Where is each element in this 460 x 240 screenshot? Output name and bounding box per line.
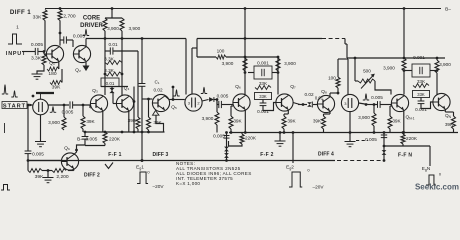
svg-text:DIFF 3: DIFF 3 [153, 152, 169, 158]
transistor Q2 [73, 45, 90, 62]
wire bus drop to DIFF4 [344, 39, 346, 45]
svg-text:0.005: 0.005 [32, 152, 44, 157]
node 39K tap [82, 104, 85, 107]
label START box [2, 102, 27, 109]
svg-text:39K: 39K [445, 122, 454, 127]
label Q4 wire stub [133, 87, 135, 133]
capacitor 0.005 start coupling [69, 101, 71, 108]
wire Q7 to Q8 [293, 103, 300, 105]
wire Eg2 stub [292, 133, 294, 164]
wire transformer feed top [338, 58, 348, 60]
wire Q3 emitter [102, 111, 104, 133]
wire Eg1 stub [141, 159, 144, 162]
svg-text:2,200: 2,200 [56, 174, 69, 180]
resistor 220K FFN [402, 133, 404, 135]
wire Q8 base [313, 104, 318, 106]
resistor 33K collector Q1 [43, 10, 47, 21]
wire Q8 collector riser [329, 93, 331, 97]
svg-text:Q₅: Q₅ [171, 105, 177, 111]
wire bus y38.5 segment B [197, 38, 322, 40]
svg-text:220K: 220K [109, 137, 121, 142]
wire rail drop FF2 [244, 9, 246, 95]
wire QN base link [421, 102, 433, 109]
wire pot output [375, 81, 391, 95]
waveform EgN step [426, 175, 436, 185]
svg-text:0.001: 0.001 [413, 55, 425, 60]
svg-text:0.02: 0.02 [153, 88, 163, 93]
svg-text:0.005: 0.005 [73, 34, 86, 40]
svg-text:0.02: 0.02 [304, 92, 314, 97]
svg-text:3,900: 3,900 [107, 26, 119, 31]
svg-text:0.005: 0.005 [371, 95, 383, 100]
node 3,900 tap [216, 98, 219, 101]
svg-text:39K: 39K [287, 119, 296, 124]
wire top supply rail B- [45, 8, 441, 10]
svg-text:–20V: –20V [153, 184, 165, 189]
wire Q4 emitter [128, 111, 130, 133]
svg-text:F-F 1: F-F 1 [108, 152, 121, 158]
wire bus segment B dashed tail [322, 38, 345, 40]
resistor 39K Q4 right [136, 117, 140, 129]
ground Q2 emitter filled [85, 62, 87, 66]
node emitter junction [47, 169, 50, 172]
ground DIFF1 input [32, 73, 43, 75]
wire rail drop FFN [403, 9, 405, 59]
wire dashes below DIFF4 [356, 140, 368, 142]
svg-text:Q₁: Q₁ [49, 61, 55, 67]
resistor 2,700 [58, 10, 62, 21]
waveform Eg1 step [137, 172, 148, 184]
wire Q7 base link [263, 103, 276, 111]
resistor 3,900 FFN right [436, 58, 438, 60]
wire FFN diode drop [383, 133, 385, 161]
waveform spike left edge [2, 85, 8, 94]
wire Q2 collector [85, 39, 87, 48]
capacitor C1 0.02 [139, 83, 146, 85]
resistor 100 DIFF4 [336, 77, 340, 88]
svg-text:33K: 33K [259, 81, 268, 86]
wire Q6 emitter [244, 110, 246, 133]
resistor 39K DIFF2 [27, 161, 29, 171]
wire Q9 base [28, 160, 62, 162]
node C1 branch [141, 131, 144, 134]
wire FFN output lateral [384, 145, 430, 147]
resistor 220K [103, 132, 107, 144]
svg-text:39K: 39K [313, 119, 322, 124]
wire Q5 collector to transformer [165, 96, 170, 100]
wire DIFF3 baseline [28, 160, 335, 162]
svg-text:Q₃: Q₃ [92, 88, 98, 94]
diode FFN [382, 150, 387, 155]
waveform Eg2 step [289, 172, 302, 187]
node start top [32, 95, 35, 98]
svg-text:Q₇: Q₇ [290, 84, 296, 90]
wire coupling cross line [101, 86, 128, 88]
resistor 3,900 left [103, 18, 107, 31]
svg-text:0.01: 0.01 [108, 42, 118, 47]
resistor 33K FFN zigzag [413, 84, 429, 88]
svg-text:Q₈: Q₈ [321, 89, 327, 95]
wire 100 feed [196, 39, 198, 58]
wire 100 to FF2 [226, 56, 245, 58]
wire coupling right drop [137, 51, 139, 117]
resistor 39K QN [444, 109, 446, 112]
wire box taps [248, 72, 254, 74]
node bus junctions [104, 37, 107, 40]
wire y58 line [346, 44, 348, 58]
wire F-F1 emitter rail [85, 131, 165, 133]
resistor 220K FF2 [241, 133, 243, 135]
wire Q1 base [43, 52, 45, 55]
ground DIFF2 [47, 171, 49, 178]
wire to ground [37, 65, 44, 74]
blocking oscillator transformer DIFF3 [185, 94, 202, 111]
diode coupling [109, 88, 114, 93]
transistor QN [433, 93, 450, 110]
svg-text:Q₆: Q₆ [235, 84, 241, 90]
transistor Q5 [152, 94, 169, 111]
svg-text:39K: 39K [52, 85, 61, 91]
diode chain upper [224, 147, 229, 152]
waveform spike Q5 [173, 90, 179, 96]
wire QN-1 emitter [403, 110, 405, 133]
svg-text:39K: 39K [392, 119, 401, 124]
svg-text:3,900: 3,900 [439, 62, 451, 67]
wire EgN stub [429, 146, 431, 166]
wire bus y38.5 segment A [86, 38, 186, 40]
svg-text:220K: 220K [245, 136, 257, 141]
wire start arrow [27, 104, 32, 106]
resistor 39K [50, 81, 62, 85]
diode Q8 input [307, 102, 312, 107]
svg-text:DIFF 4: DIFF 4 [318, 152, 334, 158]
svg-text:3,900: 3,900 [202, 116, 214, 121]
wire start output [48, 104, 69, 106]
svg-text:3,900: 3,900 [48, 120, 60, 125]
transistor Q6 [233, 94, 250, 111]
resistor 3,900 right [120, 18, 124, 31]
svg-text:3,900: 3,900 [383, 66, 395, 71]
resistor 180 emitter [58, 61, 60, 69]
resistor 33K FFN boxed [413, 91, 430, 98]
ground DIFF4 [349, 112, 351, 133]
transistor Q3 [90, 95, 107, 112]
svg-text:3.3K: 3.3K [31, 56, 42, 62]
resistor 3.3K base bias [42, 54, 46, 65]
svg-text:0.005: 0.005 [213, 134, 225, 139]
svg-text:3,900: 3,900 [129, 26, 141, 31]
svg-text:33K: 33K [417, 92, 425, 97]
svg-text:F-F 2: F-F 2 [260, 152, 273, 158]
svg-text:500: 500 [363, 69, 371, 74]
wire FF2 bottom rail [229, 132, 458, 134]
resistor 39K Q7 [287, 110, 289, 115]
svg-text:START: START [3, 103, 26, 109]
transistor QN-1 [391, 94, 408, 111]
svg-text:0.001: 0.001 [257, 61, 269, 66]
wire transformer left DIFF4 [337, 59, 339, 77]
svg-text:3,900: 3,900 [284, 61, 296, 66]
svg-text:F-F N: F-F N [398, 153, 412, 159]
resistor 3,900 start [63, 105, 65, 117]
waveform spike start out [50, 107, 56, 113]
resistor 100 [197, 56, 216, 58]
node top rail junctions [59, 7, 62, 10]
svg-text:3,900: 3,900 [222, 61, 234, 66]
blocking oscillator transformer DIFF4 [341, 94, 358, 111]
wire rail drop to 3,900 pair [111, 9, 113, 19]
svg-text:39K: 39K [233, 119, 242, 124]
wire FFN box taps [404, 70, 412, 72]
svg-text:DIFF 2: DIFF 2 [84, 173, 100, 179]
resistor 39K Q3 bias [82, 105, 84, 116]
svg-text:2,700: 2,700 [63, 14, 76, 20]
wire Q5 emitter drop [156, 115, 164, 132]
svg-text:1: 1 [16, 25, 19, 31]
waveform check mark [105, 163, 113, 169]
svg-text:Seekic.com: Seekic.com [415, 183, 459, 192]
svg-text:100: 100 [217, 49, 225, 54]
svg-text:C₁: C₁ [155, 80, 160, 85]
blocking oscillator START [33, 99, 49, 115]
wire DIFF4 output [359, 103, 368, 105]
capacitor 0.01 boxed [101, 78, 119, 87]
svg-text:INPUT: INPUT [6, 51, 26, 57]
wire left margin tick [4, 123, 6, 133]
svg-text:0.005: 0.005 [365, 137, 377, 142]
svg-text:100: 100 [328, 76, 336, 81]
svg-text:0.005: 0.005 [86, 137, 98, 142]
waveform spike start [11, 91, 17, 97]
svg-text:0.005: 0.005 [217, 94, 229, 99]
resistor 2,200 [52, 169, 66, 173]
wire Q5 base [142, 98, 152, 100]
diode chain lower [224, 153, 229, 158]
svg-text:Q₂: Q₂ [75, 68, 81, 74]
svg-text:180: 180 [48, 71, 56, 77]
wire collector riser [172, 87, 174, 100]
resistor 3,900 DIFF4 [373, 103, 376, 106]
wire DIFF2 input drop [27, 104, 30, 107]
svg-text:Q₄: Q₄ [124, 86, 130, 92]
resistor 33K boxed [255, 93, 272, 100]
waveform spike DIFF3 out [201, 88, 207, 94]
capacitor 0.005 DIFF2 [25, 150, 32, 152]
resistor 39K Q6 [230, 106, 232, 116]
wire vertical C1 branch [141, 39, 143, 84]
svg-text:33K: 33K [33, 15, 42, 21]
capacitor 0.005 rail bypass [82, 136, 89, 138]
resistor 3,900 FF2 right [277, 57, 279, 95]
svg-text:220K: 220K [406, 136, 418, 141]
capacitor 0.001 FFN lower [418, 100, 425, 102]
wire transformer primary left [185, 39, 187, 95]
wire Q9 emitter [73, 169, 75, 171]
resistor 39K Q5 [148, 103, 150, 117]
capacitor 0.001 lower [260, 102, 267, 104]
resistor 3,900 DIFF3 [216, 100, 218, 113]
ground FF2 [279, 131, 282, 134]
svg-text:B–: B– [445, 7, 451, 13]
svg-text:CORE: CORE [83, 16, 100, 22]
wire Q4 base [112, 92, 114, 104]
node Q1 base [43, 50, 46, 53]
ground START [40, 115, 42, 141]
transistor Q7 [276, 94, 293, 111]
capacitor 0.005 coupling Q1-Q2 [60, 39, 64, 41]
transistor Q1 [46, 45, 63, 62]
resistor 33K upper zigzag [255, 86, 271, 90]
transistor Q8 [317, 95, 334, 112]
resistor 3,900 FF2 left [243, 58, 247, 71]
node Q1 collector [59, 32, 62, 35]
wire diode chain FF2 [226, 133, 228, 161]
svg-text:–20V: –20V [313, 185, 325, 190]
capacitor 0.005 to Q6 [216, 100, 218, 105]
svg-text:33K: 33K [259, 94, 267, 99]
waveform spike core driver [83, 30, 89, 36]
svg-text:39K: 39K [153, 120, 162, 125]
svg-text:0.01: 0.01 [106, 81, 115, 86]
svg-text:DIFF 1: DIFF 1 [10, 9, 31, 16]
potentiometer 500 [354, 58, 356, 78]
transistor Q9 DIFF2 [61, 153, 78, 170]
transformer core bar [36, 92, 54, 94]
svg-text:39K: 39K [86, 119, 95, 124]
wire transformer secondary mid [191, 48, 193, 94]
transistor Q4 [116, 95, 133, 112]
svg-text:0.005: 0.005 [31, 42, 44, 48]
resistor 39K QN-1 [389, 106, 391, 116]
diode DIFF3 output [202, 100, 208, 102]
wire Q9 collector [74, 145, 85, 155]
waveform spike DIFF4 [363, 94, 369, 100]
svg-text:K=X 1,000: K=X 1,000 [176, 181, 200, 186]
emitter arrow Q5 [153, 111, 160, 116]
svg-text:Q₉: Q₉ [64, 146, 70, 152]
svg-text:33K: 33K [417, 79, 426, 84]
svg-text:DRIVER: DRIVER [80, 23, 103, 29]
svg-text:3,900: 3,900 [358, 115, 370, 120]
resistor 3,900 FFN left [402, 58, 406, 71]
resistor 39K Q8 [329, 111, 331, 114]
